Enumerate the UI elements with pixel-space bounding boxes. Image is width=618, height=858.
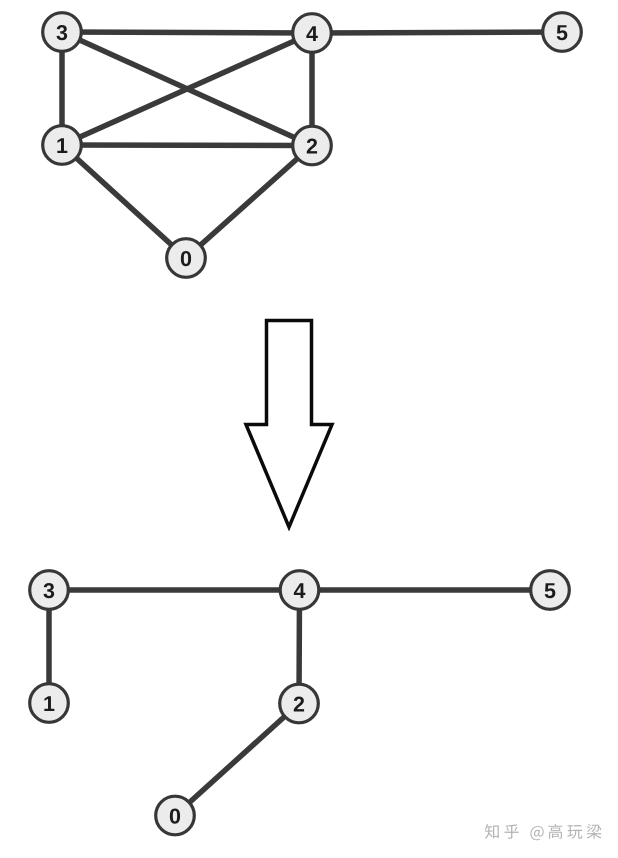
- node 2 (top graph): [293, 126, 332, 165]
- svg-text:3: 3: [56, 21, 68, 45]
- svg-text:5: 5: [556, 21, 568, 45]
- node 1 (top graph): [43, 126, 82, 165]
- node 4 (bottom graph): [280, 571, 319, 610]
- wire edge 3-4 (top graph): [62, 32, 312, 33]
- wire edge 3-1 (top graph): [59, 32, 65, 145]
- svg-text:1: 1: [43, 692, 55, 716]
- arrow (big down block arrow between graphs): [246, 321, 332, 528]
- svg-text:1: 1: [56, 134, 68, 158]
- svg-text:4: 4: [306, 22, 318, 46]
- wire edge 4-2 (top graph): [309, 33, 315, 146]
- watermark 知乎 @高玩梁: [485, 824, 602, 840]
- node 4 (top graph): [293, 14, 332, 53]
- wire edge 4-2 (bottom graph): [296, 590, 302, 704]
- node 1 (bottom graph): [30, 684, 69, 723]
- wire edge 4-5 (top graph): [312, 32, 562, 33]
- svg-text:5: 5: [544, 579, 556, 603]
- wire edge 1-4 (top graph, diagonal): [62, 33, 312, 145]
- wire edge 1-2 (top graph): [62, 142, 312, 148]
- wire edge 4-5 (bottom graph): [300, 587, 551, 593]
- wire edge 3-1 (bottom graph): [46, 590, 52, 703]
- svg-text:2: 2: [306, 135, 318, 159]
- node 0 (bottom graph): [156, 796, 195, 835]
- svg-text:0: 0: [169, 805, 181, 829]
- node 3 (top graph): [43, 13, 82, 52]
- node 3 (bottom graph): [30, 571, 69, 610]
- wire edge 3-4 (bottom graph): [49, 587, 300, 593]
- node 2 (bottom graph): [280, 684, 319, 723]
- wire edge 1-0 (top graph, diagonal): [62, 145, 186, 258]
- svg-text:4: 4: [294, 579, 306, 603]
- svg-text:2: 2: [293, 693, 305, 717]
- wire edge 2-0 (bottom graph, diagonal): [175, 704, 299, 816]
- node 5 (top graph): [543, 13, 582, 52]
- wire edge 2-0 (top graph, diagonal): [186, 146, 312, 259]
- node 0 (top graph): [167, 239, 206, 278]
- svg-text:3: 3: [43, 579, 55, 603]
- wire edge 3-2 (top graph, diagonal): [62, 32, 312, 146]
- node 5 (bottom graph): [531, 571, 570, 610]
- svg-text:0: 0: [180, 247, 192, 271]
